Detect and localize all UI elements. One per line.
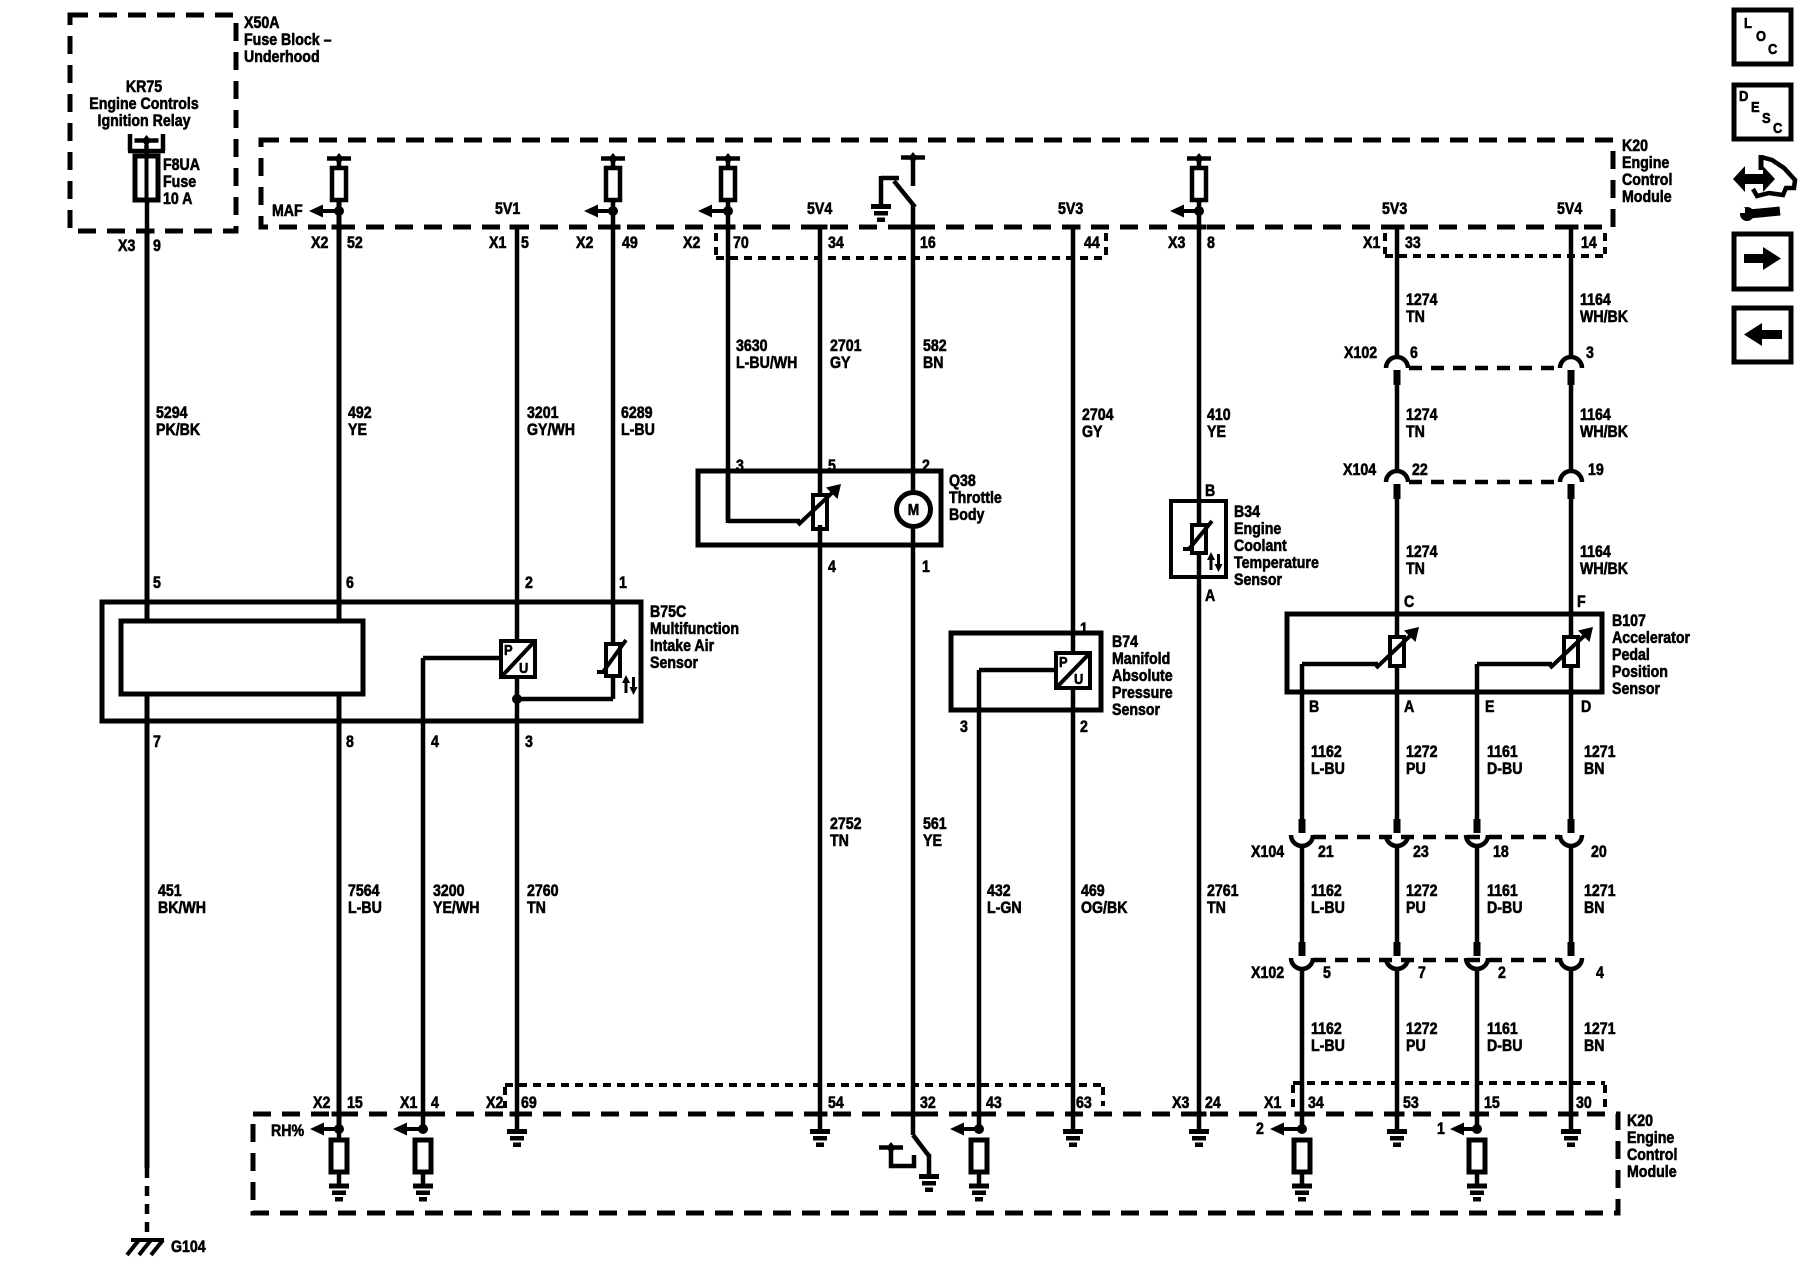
node arrow pin 70 bbox=[698, 205, 733, 218]
ECM internal resistor pin 4 bbox=[415, 1140, 431, 1184]
svg-text:1162: 1162 bbox=[1311, 882, 1342, 900]
svg-text:52: 52 bbox=[347, 234, 363, 252]
label 2704 GY bbox=[1082, 406, 1114, 441]
svg-text:6: 6 bbox=[346, 574, 354, 592]
label 1164 WH/BK 1 bbox=[1580, 291, 1628, 326]
wire 1272 PU segment 1 bbox=[1395, 666, 1400, 819]
label 3630 L-BU/WH bbox=[736, 337, 797, 372]
pin 4 Q38 bbox=[828, 558, 836, 576]
svg-text:1: 1 bbox=[1437, 1120, 1445, 1138]
svg-text:X2: X2 bbox=[486, 1094, 503, 1112]
pin 6 B75C bbox=[346, 574, 354, 592]
label 3200 YE/WH bbox=[433, 882, 479, 917]
svg-text:Temperature: Temperature bbox=[1234, 554, 1319, 572]
svg-text:7564: 7564 bbox=[348, 882, 380, 900]
svg-text:PU: PU bbox=[1406, 760, 1426, 778]
pin 53 bottom bbox=[1390, 1094, 1419, 1116]
throttle position potentiometer Q38 bbox=[728, 471, 841, 529]
svg-text:16: 16 bbox=[920, 234, 936, 252]
ground internal pin 69 bbox=[507, 1114, 527, 1147]
svg-text:Engine: Engine bbox=[1622, 154, 1670, 172]
pin 1 B74 bbox=[1080, 620, 1088, 638]
svg-text:Throttle: Throttle bbox=[949, 489, 1002, 507]
svg-text:19: 19 bbox=[1588, 461, 1604, 479]
ground G104 bbox=[127, 1238, 206, 1256]
ground internal pin 63 bbox=[1063, 1114, 1083, 1147]
svg-text:3: 3 bbox=[736, 457, 744, 475]
svg-text:YE: YE bbox=[923, 832, 942, 850]
pin X2 70 bbox=[683, 225, 749, 253]
ground internal pin 53 bbox=[1387, 1114, 1407, 1147]
connector X104 row pins 21 23 18 20 bbox=[1251, 819, 1607, 861]
wire 1162 L-BU segment 1 bbox=[1300, 692, 1305, 819]
svg-text:1274: 1274 bbox=[1406, 543, 1438, 561]
svg-text:Q38: Q38 bbox=[949, 472, 976, 490]
pin 4 B75C bbox=[431, 733, 439, 751]
label 1161 D-BU 3 bbox=[1487, 1020, 1522, 1055]
sensor B75C box bbox=[102, 602, 641, 721]
pin X1 34 bottom bbox=[1264, 1094, 1324, 1116]
node junction B75C bbox=[512, 694, 522, 704]
label 582 BN bbox=[923, 337, 947, 372]
label 469 OG/BK bbox=[1081, 882, 1127, 917]
ECM internal resistor IAT wire bbox=[601, 153, 625, 203]
svg-text:34: 34 bbox=[1308, 1094, 1324, 1112]
label 1161 D-BU 2 bbox=[1487, 882, 1522, 917]
svg-text:WH/BK: WH/BK bbox=[1580, 423, 1628, 441]
pin 2 B75C bbox=[525, 574, 533, 592]
pin B B107 bbox=[1309, 698, 1319, 716]
svg-text:2752: 2752 bbox=[830, 815, 862, 833]
wire 1274 TN segment 1 bbox=[1395, 227, 1400, 358]
connector X102 pin 3 bbox=[1560, 344, 1594, 385]
svg-text:YE/WH: YE/WH bbox=[433, 899, 479, 917]
wire 1274 TN segment 2 bbox=[1395, 385, 1400, 472]
svg-text:L: L bbox=[1744, 14, 1752, 31]
svg-text:Module: Module bbox=[1627, 1163, 1677, 1181]
pin X2 49 bbox=[576, 225, 638, 253]
wire 1161 D-BU segment 2 bbox=[1475, 846, 1480, 942]
wire 1271 BN segment 1 bbox=[1569, 666, 1574, 819]
svg-text:561: 561 bbox=[923, 815, 947, 833]
svg-text:Sensor: Sensor bbox=[650, 654, 698, 672]
label 432 L-GN bbox=[987, 882, 1022, 917]
svg-text:X2: X2 bbox=[576, 234, 593, 252]
wire 1271 BN segment 2 bbox=[1569, 846, 1574, 942]
svg-text:1164: 1164 bbox=[1580, 543, 1611, 561]
label 1274 TN 3 bbox=[1406, 543, 1438, 578]
label 7564 L-BU bbox=[348, 882, 382, 917]
svg-text:1274: 1274 bbox=[1406, 406, 1438, 424]
svg-text:5V1: 5V1 bbox=[495, 200, 521, 218]
wire 7564 L-BU bbox=[337, 694, 342, 1129]
svg-text:24: 24 bbox=[1205, 1094, 1221, 1112]
svg-text:34: 34 bbox=[828, 234, 844, 252]
connector X104 link top bbox=[1409, 480, 1560, 485]
ground internal RH bbox=[329, 1184, 349, 1202]
svg-text:70: 70 bbox=[733, 234, 749, 252]
svg-text:BK/WH: BK/WH bbox=[158, 899, 206, 917]
svg-text:5294: 5294 bbox=[156, 404, 188, 422]
svg-text:D-BU: D-BU bbox=[1487, 899, 1522, 917]
svg-text:53: 53 bbox=[1403, 1094, 1419, 1112]
label B107 Accelerator Pedal Position Sensor bbox=[1612, 612, 1690, 698]
ECM K20 box top bbox=[261, 140, 1613, 227]
sensor B75C humidity P/U element bbox=[501, 641, 535, 677]
sensor B34 thermistor bbox=[1183, 521, 1223, 572]
svg-text:432: 432 bbox=[987, 882, 1011, 900]
svg-text:20: 20 bbox=[1591, 843, 1607, 861]
svg-text:TN: TN bbox=[1406, 308, 1425, 326]
svg-text:21: 21 bbox=[1318, 843, 1334, 861]
label B34 Engine Coolant Temperature Sensor bbox=[1234, 503, 1319, 589]
svg-text:Control: Control bbox=[1622, 171, 1672, 189]
svg-text:PK/BK: PK/BK bbox=[156, 421, 200, 439]
svg-text:Underhood: Underhood bbox=[244, 48, 320, 66]
pin D B107 bbox=[1581, 698, 1591, 716]
pin 3 B74 bbox=[960, 718, 968, 736]
svg-text:L-BU: L-BU bbox=[1311, 760, 1345, 778]
label 2760 TN bbox=[527, 882, 559, 917]
svg-text:14: 14 bbox=[1581, 234, 1597, 252]
svg-text:B107: B107 bbox=[1612, 612, 1646, 630]
svg-text:KR75: KR75 bbox=[126, 78, 163, 96]
label 1271 BN 1 bbox=[1584, 743, 1616, 778]
node arrow pin 8 bbox=[1170, 205, 1204, 218]
pin F B107 bbox=[1577, 593, 1586, 611]
icon arrow right bbox=[1734, 234, 1791, 289]
svg-text:X102: X102 bbox=[1344, 344, 1377, 362]
svg-text:1162: 1162 bbox=[1311, 743, 1342, 761]
svg-text:410: 410 bbox=[1207, 406, 1231, 424]
svg-text:K20: K20 bbox=[1622, 137, 1648, 155]
svg-text:C: C bbox=[1768, 40, 1777, 57]
svg-text:5: 5 bbox=[1323, 964, 1331, 982]
svg-text:PU: PU bbox=[1406, 899, 1426, 917]
svg-text:OG/BK: OG/BK bbox=[1081, 899, 1127, 917]
pin X2 15 bbox=[313, 1094, 363, 1116]
wire P/U to pin 4 bbox=[423, 656, 501, 661]
svg-text:BN: BN bbox=[1584, 899, 1604, 917]
sensor B74 pressure P/U element bbox=[1056, 653, 1090, 688]
svg-text:4: 4 bbox=[828, 558, 836, 576]
node arrow pin 43 bbox=[950, 1123, 984, 1136]
wire 1274 TN segment 3 bbox=[1395, 499, 1400, 638]
connector X102 row pins 5 7 2 4 bbox=[1251, 942, 1604, 982]
svg-text:18: 18 bbox=[1493, 843, 1509, 861]
wire 1161 D-BU segment 3 bbox=[1475, 969, 1480, 1129]
pin 16 top bbox=[906, 225, 936, 253]
svg-text:33: 33 bbox=[1405, 234, 1421, 252]
svg-text:Control: Control bbox=[1627, 1146, 1677, 1164]
svg-text:X50A: X50A bbox=[244, 14, 279, 32]
svg-text:RH%: RH% bbox=[271, 1122, 304, 1140]
connector X104 pin 19 bbox=[1560, 461, 1604, 499]
fuse block X50A outline bbox=[70, 15, 236, 231]
pin 1 Q38 bbox=[922, 558, 930, 576]
wire 492 YE bbox=[337, 200, 342, 621]
svg-text:Engine Controls: Engine Controls bbox=[89, 95, 198, 113]
connector X2 sub-box pins 69-63 bbox=[505, 1085, 1103, 1108]
wire fuse to pin X3-9 bbox=[145, 200, 150, 231]
svg-text:6289: 6289 bbox=[621, 404, 653, 422]
svg-text:49: 49 bbox=[622, 234, 638, 252]
svg-text:1274: 1274 bbox=[1406, 291, 1438, 309]
svg-text:B: B bbox=[1205, 482, 1215, 500]
pin A B107 bbox=[1404, 698, 1414, 716]
svg-text:L-BU: L-BU bbox=[348, 899, 382, 917]
net 5V3 right bbox=[1382, 200, 1407, 218]
svg-text:1272: 1272 bbox=[1406, 743, 1438, 761]
ECM internal resistor pin 34 bbox=[1294, 1140, 1310, 1184]
svg-text:MAF: MAF bbox=[272, 202, 303, 220]
svg-text:15: 15 bbox=[1484, 1094, 1500, 1112]
net 5V4 bbox=[807, 200, 833, 218]
label 492 YE bbox=[348, 404, 372, 439]
pin 30 bottom bbox=[1564, 1094, 1592, 1116]
svg-text:Ignition Relay: Ignition Relay bbox=[98, 112, 191, 130]
svg-text:GY: GY bbox=[1082, 423, 1102, 441]
svg-text:Body: Body bbox=[949, 506, 985, 524]
label 1274 TN 2 bbox=[1406, 406, 1438, 441]
ground internal pin 15 bbox=[1467, 1184, 1487, 1202]
ECM internal resistor pin 15 bbox=[1469, 1140, 1485, 1184]
label 1164 WH/BK 2 bbox=[1580, 406, 1628, 441]
svg-text:3201: 3201 bbox=[527, 404, 559, 422]
svg-text:8: 8 bbox=[346, 733, 354, 751]
fuse F8UA bbox=[135, 156, 158, 200]
sensor B75C IAT thermistor bbox=[597, 640, 638, 695]
svg-text:32: 32 bbox=[920, 1094, 936, 1112]
wire 1161 D-BU segment 1 bbox=[1475, 692, 1480, 819]
svg-text:8: 8 bbox=[1207, 234, 1215, 252]
svg-text:5V4: 5V4 bbox=[807, 200, 833, 218]
svg-text:D: D bbox=[1581, 698, 1591, 716]
svg-text:1161: 1161 bbox=[1487, 882, 1518, 900]
connector X104 pin 22 bbox=[1343, 461, 1428, 499]
svg-text:WH/BK: WH/BK bbox=[1580, 308, 1628, 326]
ECM K20 box bottom bbox=[253, 1114, 1618, 1213]
svg-text:BN: BN bbox=[923, 354, 943, 372]
svg-text:Manifold: Manifold bbox=[1112, 650, 1170, 668]
label 5294 PK/BK bbox=[156, 404, 200, 439]
svg-text:D-BU: D-BU bbox=[1487, 1037, 1522, 1055]
pin 43 bottom bbox=[972, 1094, 1002, 1116]
svg-text:WH/BK: WH/BK bbox=[1580, 560, 1628, 578]
svg-text:X1: X1 bbox=[489, 234, 507, 252]
svg-text:1: 1 bbox=[1080, 620, 1088, 638]
svg-text:4: 4 bbox=[431, 733, 439, 751]
wire 1272 PU segment 3 bbox=[1395, 969, 1400, 1114]
node RH% arrow bbox=[271, 1122, 344, 1140]
svg-text:TN: TN bbox=[830, 832, 849, 850]
wire 3200 YE/WH bbox=[421, 658, 426, 1129]
icon schematic navigation bbox=[1733, 155, 1795, 221]
ECM internal switch low bbox=[879, 1135, 929, 1175]
svg-text:D: D bbox=[1739, 87, 1748, 104]
svg-text:63: 63 bbox=[1076, 1094, 1092, 1112]
svg-text:E: E bbox=[1751, 98, 1760, 115]
relay KR75 contact bbox=[128, 134, 165, 151]
net 5V4 right bbox=[1557, 200, 1583, 218]
ground internal pin 54 bbox=[810, 1129, 830, 1147]
label 1272 PU 3 bbox=[1406, 1020, 1438, 1055]
label 410 YE bbox=[1207, 406, 1231, 441]
pin 3 B75C bbox=[525, 733, 533, 751]
label 1274 TN 1 bbox=[1406, 291, 1438, 326]
pin 3 Q38 bbox=[736, 457, 744, 475]
svg-text:L-BU/WH: L-BU/WH bbox=[736, 354, 797, 372]
ECM internal resistor RH wire bbox=[331, 1129, 347, 1184]
svg-text:F: F bbox=[1577, 593, 1586, 611]
svg-text:U: U bbox=[1074, 670, 1083, 687]
label B75C Multifunction Intake Air Sensor bbox=[650, 603, 739, 672]
svg-text:2: 2 bbox=[1498, 964, 1506, 982]
svg-text:2: 2 bbox=[1256, 1120, 1264, 1138]
svg-text:D-BU: D-BU bbox=[1487, 760, 1522, 778]
svg-text:GY/WH: GY/WH bbox=[527, 421, 575, 439]
svg-text:X3: X3 bbox=[118, 237, 135, 255]
svg-text:P: P bbox=[1059, 653, 1068, 670]
label 2701 GY bbox=[830, 337, 862, 372]
wire 1162 L-BU segment 2 bbox=[1300, 846, 1305, 942]
svg-text:C: C bbox=[1404, 593, 1414, 611]
svg-text:2760: 2760 bbox=[527, 882, 559, 900]
wire 1162 L-BU segment 3 bbox=[1300, 969, 1305, 1129]
svg-text:69: 69 bbox=[521, 1094, 537, 1112]
pin X1 4 bbox=[400, 1094, 439, 1116]
svg-text:1161: 1161 bbox=[1487, 1020, 1518, 1038]
pin 5 B75C bbox=[153, 574, 161, 592]
pin 34 top bbox=[813, 225, 845, 253]
pin 7 B75C bbox=[153, 733, 161, 751]
svg-text:U: U bbox=[519, 659, 528, 676]
label 1162 L-BU 2 bbox=[1311, 882, 1345, 917]
svg-text:Intake Air: Intake Air bbox=[650, 637, 714, 655]
svg-text:L-BU: L-BU bbox=[1311, 1037, 1345, 1055]
svg-text:30: 30 bbox=[1576, 1094, 1592, 1112]
wire 582 BN bbox=[911, 205, 916, 493]
pin X3 24 bbox=[1172, 1094, 1221, 1116]
wire P/U to pin 3 B74 bbox=[979, 668, 1056, 673]
pin B B34 bbox=[1205, 482, 1215, 500]
svg-text:TN: TN bbox=[1406, 560, 1425, 578]
svg-text:2704: 2704 bbox=[1082, 406, 1114, 424]
wire 1164 WH/BK segment 3 bbox=[1569, 499, 1574, 638]
svg-text:X1: X1 bbox=[400, 1094, 418, 1112]
accelerator potentiometer 2 B107 bbox=[1477, 627, 1593, 692]
svg-text:B34: B34 bbox=[1234, 503, 1260, 521]
svg-text:X1: X1 bbox=[1264, 1094, 1282, 1112]
wire 3630 L-BU/WH internal resistor bbox=[716, 153, 740, 203]
svg-text:Pedal: Pedal bbox=[1612, 646, 1650, 664]
wire 1164 WH/BK segment 1 bbox=[1569, 227, 1574, 358]
svg-text:Fuse Block –: Fuse Block – bbox=[244, 31, 332, 49]
pin X3 9 bbox=[118, 229, 161, 256]
pin X1 5 bbox=[489, 225, 529, 253]
svg-text:54: 54 bbox=[828, 1094, 844, 1112]
pin 2 B74 bbox=[1080, 718, 1088, 736]
svg-text:Engine: Engine bbox=[1627, 1129, 1675, 1147]
svg-text:L-GN: L-GN bbox=[987, 899, 1022, 917]
ECM internal resistor pin 43 bbox=[971, 1140, 987, 1184]
svg-text:K20: K20 bbox=[1627, 1112, 1653, 1130]
label 561 YE bbox=[923, 815, 947, 850]
label 1272 PU 1 bbox=[1406, 743, 1438, 778]
svg-text:3: 3 bbox=[525, 733, 533, 751]
svg-text:3200: 3200 bbox=[433, 882, 465, 900]
svg-text:3: 3 bbox=[960, 718, 968, 736]
svg-text:469: 469 bbox=[1081, 882, 1105, 900]
svg-text:2: 2 bbox=[1080, 718, 1088, 736]
ground internal pin 24 bbox=[1189, 1129, 1209, 1147]
wire to ground G104 dashed bbox=[145, 1168, 150, 1238]
svg-text:M: M bbox=[908, 501, 919, 519]
label 1271 BN 2 bbox=[1584, 882, 1616, 917]
svg-text:7: 7 bbox=[153, 733, 161, 751]
node arrow 1 pin 15 bbox=[1437, 1120, 1482, 1138]
label K20 Engine Control Module bottom bbox=[1627, 1112, 1677, 1181]
connector X1 sub-box pins 34-30 bbox=[1293, 1083, 1605, 1108]
svg-text:BN: BN bbox=[1584, 760, 1604, 778]
label X50A Fuse Block - Underhood bbox=[244, 14, 332, 66]
pin 1 B75C bbox=[619, 574, 627, 592]
svg-text:G104: G104 bbox=[171, 1238, 206, 1256]
sensor B75C heater element box bbox=[121, 621, 363, 694]
svg-text:1164: 1164 bbox=[1580, 406, 1611, 424]
ground internal pin 30 bbox=[1561, 1129, 1581, 1147]
label 1272 PU 2 bbox=[1406, 882, 1438, 917]
svg-text:5: 5 bbox=[153, 574, 161, 592]
svg-text:6: 6 bbox=[1410, 344, 1418, 362]
ground internal pin 43 bbox=[969, 1184, 989, 1202]
wire 6289 L-BU bbox=[611, 200, 616, 645]
label 1271 BN 3 bbox=[1584, 1020, 1616, 1055]
wire 2761 TN bbox=[1197, 553, 1202, 1129]
svg-text:1272: 1272 bbox=[1406, 882, 1438, 900]
svg-text:1: 1 bbox=[619, 574, 627, 592]
label 1161 D-BU 1 bbox=[1487, 743, 1522, 778]
svg-text:BN: BN bbox=[1584, 1037, 1604, 1055]
svg-text:1161: 1161 bbox=[1487, 743, 1518, 761]
svg-text:TN: TN bbox=[527, 899, 546, 917]
node MAF arrow bbox=[272, 202, 344, 220]
sensor B74 box bbox=[951, 633, 1101, 710]
svg-text:X104: X104 bbox=[1251, 843, 1285, 861]
wire 2704 GY bbox=[1071, 227, 1076, 655]
svg-text:2: 2 bbox=[922, 457, 930, 475]
svg-text:4: 4 bbox=[1596, 964, 1604, 982]
svg-text:2761: 2761 bbox=[1207, 882, 1239, 900]
svg-text:A: A bbox=[1205, 587, 1215, 605]
pin 44 top bbox=[1066, 225, 1101, 253]
ECM internal switch high bbox=[881, 152, 925, 207]
svg-text:TN: TN bbox=[1406, 423, 1425, 441]
ground internal pin 34 bbox=[1292, 1184, 1312, 1202]
svg-text:Sensor: Sensor bbox=[1612, 680, 1660, 698]
svg-text:X2: X2 bbox=[311, 234, 328, 252]
svg-text:X104: X104 bbox=[1343, 461, 1377, 479]
wire 561 YE bbox=[911, 527, 916, 1135]
svg-text:5V4: 5V4 bbox=[1557, 200, 1583, 218]
svg-text:7: 7 bbox=[1418, 964, 1426, 982]
ground internal switch top bbox=[871, 204, 891, 222]
pin X3 8 bbox=[1168, 225, 1215, 253]
svg-text:X102: X102 bbox=[1251, 964, 1284, 982]
wire 1164 WH/BK segment 2 bbox=[1569, 385, 1574, 472]
pin X2 69 bbox=[486, 1094, 537, 1116]
svg-text:B75C: B75C bbox=[650, 603, 686, 621]
